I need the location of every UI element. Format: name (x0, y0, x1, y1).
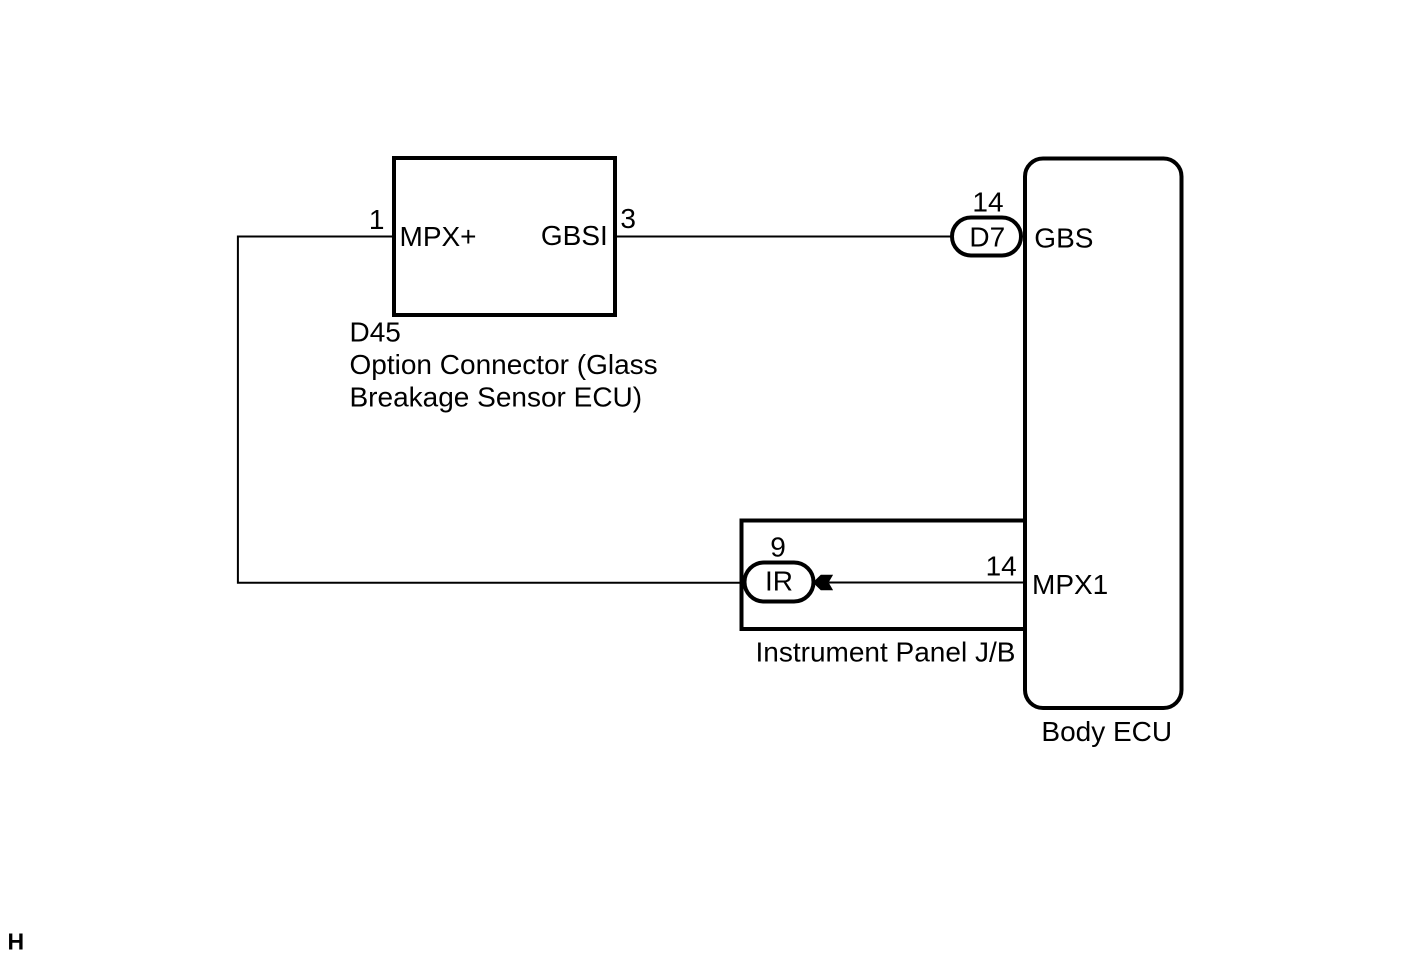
svg-text:14: 14 (972, 187, 1003, 218)
terminal oval IR on Instrument Panel J/B (745, 563, 814, 602)
terminal name D7 (969, 222, 1005, 253)
terminal name IR (765, 566, 793, 597)
pin label MPX+ (400, 221, 477, 252)
pin number 9 above IR (770, 531, 786, 562)
pin number 14 (Body ECU MPX1) (986, 551, 1017, 582)
svg-text:H: H (8, 929, 25, 955)
label D45 (350, 317, 401, 348)
ECU block: Body ECU rounded box (1025, 159, 1182, 709)
pin label GBS (Body ECU) (1034, 223, 1093, 254)
pin number 3 (D45 GBSI) (620, 203, 636, 234)
svg-text:D45: D45 (350, 317, 401, 348)
label Option Connector (Glass (350, 349, 658, 380)
wire from Body ECU pin 14 MPX1 to arrow at IR (829, 582, 1023, 584)
pin number 1 (D45 MPX+) (369, 204, 385, 235)
svg-text:3: 3 (620, 203, 636, 234)
svg-text:MPX1: MPX1 (1032, 569, 1108, 600)
svg-text:Option Connector (Glass: Option Connector (Glass (350, 349, 658, 380)
pin label GBSI (541, 220, 608, 251)
svg-text:GBSI: GBSI (541, 220, 608, 251)
svg-text:Instrument Panel J/B: Instrument Panel J/B (756, 636, 1016, 667)
svg-text:9: 9 (770, 531, 786, 562)
svg-text:Body ECU: Body ECU (1041, 716, 1172, 747)
svg-text:MPX+: MPX+ (400, 221, 477, 252)
wire from D45 pin 3 GBSI to Body ECU terminal D7 (617, 236, 951, 238)
label Breakage Sensor ECU) (350, 382, 643, 413)
svg-text:IR: IR (765, 566, 793, 597)
terminal oval D7 on Body ECU (952, 218, 1021, 256)
svg-text:Breakage Sensor ECU): Breakage Sensor ECU) (350, 382, 643, 413)
wire from D45 pin 1 MPX+ down and across to IR terminal (238, 237, 744, 583)
svg-text:1: 1 (369, 204, 385, 235)
svg-text:GBS: GBS (1034, 223, 1093, 254)
page index letter H (8, 929, 25, 955)
connector box D45 (Glass Breakage Sensor ECU option connector) (394, 158, 615, 315)
junction block: Instrument Panel J/B box (742, 521, 1026, 630)
svg-text:14: 14 (986, 551, 1017, 582)
pin number 14 above D7 (972, 187, 1003, 218)
label Body ECU (1041, 716, 1172, 747)
pin label MPX1 (Body ECU) (1032, 569, 1108, 600)
label Instrument Panel J/B (756, 636, 1016, 667)
svg-text:D7: D7 (969, 222, 1005, 253)
signal-flow arrowhead pointing into IR (813, 575, 833, 591)
